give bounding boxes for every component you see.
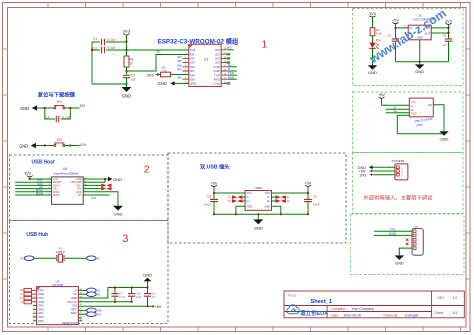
wire D- row bbox=[386, 108, 410, 110]
svg-text:Your Company: Your Company bbox=[352, 307, 375, 311]
port right D+ (red bowtie) bbox=[276, 199, 286, 203]
svg-text:GND: GND bbox=[122, 94, 131, 99]
svg-text:D-: D- bbox=[229, 196, 232, 199]
U2 right lower pin stubs bbox=[78, 318, 82, 321]
svg-text:GND: GND bbox=[411, 112, 417, 116]
ground (regulator) bbox=[415, 62, 425, 74]
wire +5V down and to U3 IN bbox=[396, 24, 409, 28]
svg-text:3V3: 3V3 bbox=[445, 20, 452, 24]
wire GND2 row down bbox=[83, 192, 118, 206]
wire +5V to VCC bbox=[382, 99, 410, 106]
svg-text:RESET#/CDP: RESET#/CDP bbox=[62, 321, 79, 325]
capacitor C7 bbox=[111, 288, 125, 302]
svg-text:3V3: 3V3 bbox=[369, 12, 376, 16]
U5 right pin names bbox=[71, 177, 83, 197]
svg-text:12MHz: 12MHz bbox=[56, 250, 66, 254]
resistor R2 bbox=[159, 66, 189, 77]
ground (right arrow GND) bbox=[108, 177, 122, 182]
svg-text:RXD: RXD bbox=[389, 232, 396, 236]
svg-text:C8: C8 bbox=[313, 195, 317, 199]
port left D+ (red bowtie) bbox=[232, 199, 242, 203]
power flag 3V3 (POWER1 pin3) bbox=[360, 173, 373, 177]
regulator U3 bbox=[408, 14, 434, 40]
svg-text:C1: C1 bbox=[93, 37, 97, 41]
svg-text:INT: INT bbox=[78, 193, 83, 197]
svg-text:1uf: 1uf bbox=[152, 295, 156, 299]
power flag +5V bbox=[151, 305, 162, 309]
wire + net label 3V3 (U1 pin IO0 row) bbox=[227, 49, 233, 51]
wire right GND pin down bbox=[272, 206, 281, 214]
svg-text:TITLE:: TITLE: bbox=[288, 294, 297, 298]
svg-text:C8: C8 bbox=[387, 34, 391, 38]
svg-text:C16: C16 bbox=[136, 292, 141, 296]
crystal Y1 12MHz bbox=[56, 247, 66, 263]
ground (U1 GND pin) bbox=[158, 81, 189, 86]
junction dots OUT bbox=[447, 27, 449, 34]
svg-text:DP2: DP2 bbox=[38, 304, 44, 308]
U2 left lower pin stubs bbox=[33, 306, 37, 321]
wire GND to pin1 bbox=[373, 166, 395, 168]
power flag +5V (USB1) bbox=[378, 93, 385, 98]
svg-text:Sheet_1: Sheet_1 bbox=[311, 299, 332, 305]
U1 left pin stubs bbox=[183, 58, 189, 79]
LED PL1 bbox=[369, 38, 381, 49]
ground (LED) bbox=[368, 65, 378, 75]
wire bowtie to D- pin bbox=[242, 196, 245, 198]
svg-text:D-: D- bbox=[267, 195, 270, 199]
svg-text:D-: D- bbox=[411, 104, 414, 108]
no-connect marks pins 3-4 bbox=[406, 238, 409, 245]
wire switch to EN label bbox=[65, 107, 80, 109]
svg-text:D+: D+ bbox=[411, 108, 415, 112]
svg-text:XI: XI bbox=[74, 288, 77, 292]
wire +5V row (bottom rail) bbox=[78, 305, 151, 307]
junction dot GND rail bbox=[419, 61, 421, 63]
svg-text:10K: 10K bbox=[162, 69, 169, 73]
port HD- (red bowtie) bbox=[101, 187, 111, 191]
svg-text:VCC: VCC bbox=[411, 100, 417, 104]
U2 right pin names bbox=[71, 288, 77, 315]
wire bottom GND rail (regulator) bbox=[396, 61, 449, 63]
svg-text:D-: D- bbox=[21, 293, 24, 296]
wire right D- pin to bowtie bbox=[272, 196, 276, 198]
svg-text:RXD: RXD bbox=[228, 75, 234, 79]
svg-text:1: 1 bbox=[262, 39, 268, 51]
capacitor C2 bbox=[92, 46, 127, 53]
svg-text:DPU: DPU bbox=[71, 307, 77, 311]
port flags rows IO1..IO3 (green) bbox=[227, 53, 231, 85]
svg-text:D+: D+ bbox=[228, 200, 232, 203]
net port UD- bbox=[87, 312, 102, 317]
svg-text:USB2: USB2 bbox=[254, 186, 262, 190]
net labels IO4-IO9 (left stubs) bbox=[177, 55, 182, 80]
svg-text:+5V: +5V bbox=[155, 305, 162, 309]
wire U3 OUT rows to 3V3 bbox=[431, 25, 448, 39]
chip U5 SuperMicroUSBhub bbox=[52, 167, 84, 204]
svg-text:D+: D+ bbox=[394, 109, 398, 113]
junction dot VBCOMP/GND bbox=[104, 178, 106, 180]
svg-text:5V: 5V bbox=[20, 289, 23, 292]
wire SS row bbox=[15, 188, 51, 190]
svg-text:VCC: VCC bbox=[265, 191, 271, 195]
svg-text:IO9: IO9 bbox=[57, 138, 62, 142]
svg-text:MOSI: MOSI bbox=[36, 191, 43, 195]
chip U2 CH334R bbox=[37, 280, 79, 325]
wire HD- bbox=[83, 188, 101, 190]
capacitor C6 bbox=[204, 195, 218, 207]
power flag 3V3 (LED branch) bbox=[369, 12, 376, 17]
net port X0 (left oval) bbox=[20, 256, 34, 261]
svg-text:EN: EN bbox=[157, 50, 161, 54]
junction dots caps bbox=[114, 286, 149, 307]
wire MOSI row bbox=[15, 194, 51, 196]
svg-text:GND: GND bbox=[440, 137, 449, 142]
svg-text:GND: GND bbox=[264, 204, 270, 208]
svg-text:DP4: DP4 bbox=[38, 288, 44, 292]
svg-text:GND: GND bbox=[254, 226, 263, 231]
wire 3V3 to R4 bbox=[372, 18, 374, 28]
op chip U1 ESP32-C3-WROOM-02 bbox=[189, 44, 221, 86]
wire +5V left vertical bbox=[213, 187, 215, 215]
svg-text:DP3: DP3 bbox=[38, 296, 44, 300]
svg-text:C6: C6 bbox=[207, 195, 211, 199]
ground (EN button) bbox=[20, 105, 37, 111]
svg-text:X1: X1 bbox=[97, 289, 101, 293]
svg-text:2023-06-26: 2023-06-26 bbox=[344, 313, 361, 317]
connector J4 (debug uart) bbox=[412, 225, 423, 256]
svg-text:IO9: IO9 bbox=[80, 143, 86, 147]
svg-text:3V3: 3V3 bbox=[360, 173, 367, 177]
svg-text:DM2: DM2 bbox=[38, 307, 44, 311]
wire MISO row bbox=[15, 191, 51, 193]
svg-text:D+: D+ bbox=[267, 199, 271, 203]
header net labels 5V/D-/D+/GND bbox=[20, 289, 24, 304]
svg-text:CH334R: CH334R bbox=[52, 283, 64, 287]
pushbutton IO9 bbox=[54, 138, 65, 147]
wire +5V to USB2 VCC bbox=[214, 192, 245, 194]
wire VBUS33 row (mid rail) bbox=[78, 301, 131, 303]
svg-text:D-: D- bbox=[287, 196, 290, 199]
svg-text:EN: EN bbox=[80, 104, 85, 108]
svg-text:1uf: 1uf bbox=[131, 78, 136, 82]
svg-text:GND: GND bbox=[113, 177, 122, 182]
svg-text:DM1: DM1 bbox=[38, 315, 44, 319]
power flag +5V (POWER1 pin2) bbox=[359, 170, 373, 174]
junction dot bbox=[307, 192, 309, 194]
U5 pin numbers bbox=[49, 178, 88, 196]
wire GND pin loop bbox=[397, 115, 444, 134]
svg-text:复位与下载按键: 复位与下载按键 bbox=[37, 91, 76, 99]
svg-text:3: 3 bbox=[122, 233, 128, 245]
svg-text:X0: X0 bbox=[97, 292, 101, 296]
wire GND row up to cap rail bbox=[78, 288, 147, 299]
svg-text:3V3: 3V3 bbox=[147, 72, 155, 77]
svg-text:X0: X0 bbox=[20, 256, 24, 260]
svg-text:Company:: Company: bbox=[331, 307, 346, 311]
svg-text:0.1uf: 0.1uf bbox=[119, 295, 125, 299]
svg-text:UD+: UD+ bbox=[97, 309, 103, 313]
wire R4 to LED bbox=[372, 36, 374, 43]
wire crystal to X1 bbox=[65, 257, 87, 259]
wire C4 loop bbox=[45, 108, 71, 119]
svg-text:D+: D+ bbox=[20, 297, 24, 300]
upstream port header (4 red boxes) bbox=[24, 288, 32, 303]
capacitor C16 bbox=[128, 288, 142, 302]
section box: USB Hub bbox=[10, 221, 169, 324]
section box: dual USB bbox=[168, 153, 346, 243]
wire + net label D+ (IO19) bbox=[227, 66, 237, 68]
junction dots IO9 row bbox=[44, 144, 46, 146]
svg-text:UD-: UD- bbox=[97, 312, 102, 316]
svg-text:嘉立创EDA: 嘉立创EDA bbox=[300, 309, 329, 317]
capacitor C3 bbox=[123, 74, 135, 88]
net port X1 (chip side) bbox=[87, 288, 101, 293]
resistor R6 bbox=[124, 50, 134, 74]
svg-text:U3: U3 bbox=[418, 14, 422, 18]
svg-text:U5: U5 bbox=[63, 167, 67, 171]
wires header to U2 pins bbox=[32, 290, 37, 301]
net port X0 (chip side) bbox=[87, 292, 101, 297]
wire GND to IO9 switch bbox=[36, 145, 54, 147]
power flag 3V3 (reg out) bbox=[445, 20, 452, 25]
svg-text:U1: U1 bbox=[204, 58, 208, 62]
svg-text:C7: C7 bbox=[119, 292, 123, 296]
net port UD+ bbox=[87, 308, 103, 313]
svg-text:D+: D+ bbox=[287, 200, 291, 203]
junction dot bbox=[213, 192, 215, 194]
svg-text:REV:: REV: bbox=[438, 296, 445, 300]
wire RXD row bbox=[374, 234, 412, 236]
wire 3V3 to pin3 bbox=[373, 174, 395, 176]
svg-text:GND: GND bbox=[158, 81, 167, 86]
svg-text:2: 2 bbox=[144, 164, 150, 176]
wire D+ row bbox=[386, 112, 410, 114]
ground (IO9 button) bbox=[19, 143, 36, 149]
wire VBCOMP tied up to GND bbox=[83, 179, 105, 182]
wire EN pin right down bbox=[433, 105, 444, 131]
port left D- (red bowtie) bbox=[232, 195, 242, 199]
svg-text:10uF: 10uF bbox=[136, 295, 142, 299]
power flag 3V3 (at R2) bbox=[147, 72, 159, 77]
svg-text:+5V: +5V bbox=[392, 19, 399, 23]
wire left vertical of C1/C2 loop bbox=[91, 42, 93, 84]
svg-text:DP1: DP1 bbox=[38, 311, 44, 315]
svg-text:PL1: PL1 bbox=[376, 38, 381, 42]
wire TXD row bbox=[374, 230, 412, 232]
svg-text:GND: GND bbox=[368, 70, 377, 75]
capacitor C4 bbox=[45, 115, 70, 122]
USB2 left pin names bbox=[247, 191, 253, 208]
wire HD+ bbox=[83, 184, 101, 186]
svg-text:GND: GND bbox=[114, 211, 123, 216]
svg-text:EN: EN bbox=[428, 103, 432, 107]
wire GND to switch bbox=[37, 107, 54, 109]
wire right D+ pin to bowtie bbox=[272, 200, 276, 202]
svg-text:D-: D- bbox=[247, 195, 250, 199]
svg-text:Zoologist: Zoologist bbox=[405, 313, 419, 317]
wire pin5 to GND bbox=[399, 248, 412, 255]
svg-text:+5V: +5V bbox=[305, 181, 312, 185]
svg-text:GND: GND bbox=[395, 260, 404, 265]
power flag +5V (left) bbox=[211, 181, 218, 186]
U1 right pin names bbox=[214, 48, 221, 86]
chip USB1 USB-212-BCW bbox=[409, 98, 433, 127]
junction dots C1/C2 rail bbox=[91, 40, 128, 85]
svg-text:GND: GND bbox=[143, 273, 152, 278]
svg-text:GND: GND bbox=[247, 204, 253, 208]
USB2 right pin names bbox=[264, 191, 270, 208]
svg-text:0.1uf: 0.1uf bbox=[62, 115, 69, 119]
svg-text:GND: GND bbox=[71, 296, 77, 300]
svg-text:3V3: 3V3 bbox=[226, 46, 232, 50]
capacitor C1 bbox=[92, 37, 127, 45]
net port X1 (right oval) bbox=[87, 256, 101, 261]
ground (below C3) bbox=[122, 87, 132, 99]
wire + net label TXD bbox=[227, 74, 237, 76]
wire bowtie to D+ pin bbox=[242, 200, 245, 202]
ground (up arrow above caps) bbox=[143, 273, 152, 288]
ground (USB1) bbox=[439, 131, 449, 141]
svg-text:VCC: VCC bbox=[247, 191, 253, 195]
power flag +5V (regulator) bbox=[392, 19, 399, 24]
ground (POWER1 pin1) bbox=[358, 165, 373, 170]
connector POWER1 bbox=[392, 159, 408, 180]
wire switch to IO9 label bbox=[65, 145, 80, 147]
svg-text:C4: C4 bbox=[45, 115, 49, 119]
wire U3 GND pin down bbox=[419, 40, 421, 62]
port right D- (red bowtie) bbox=[276, 195, 286, 199]
svg-text:0.1uf: 0.1uf bbox=[108, 46, 115, 50]
svg-text:3V3: 3V3 bbox=[24, 172, 31, 176]
junction dot bbox=[29, 178, 31, 180]
ground (bottom) bbox=[113, 206, 123, 217]
wire EN net from R6/C3 node to U1 EN pin bbox=[127, 55, 189, 72]
power flag 3V3 (USB host) bbox=[24, 172, 33, 179]
svg-text:USB Host: USB Host bbox=[32, 160, 55, 166]
svg-text:C5: C5 bbox=[152, 292, 156, 296]
ground (J4) bbox=[395, 255, 405, 265]
wire INT bbox=[83, 194, 109, 196]
svg-text:GND: GND bbox=[19, 143, 28, 148]
section box: regulator (green) bbox=[353, 9, 464, 86]
svg-text:DM3: DM3 bbox=[38, 300, 44, 304]
wire 3V3 rail to U1 pin 3V3 bbox=[127, 42, 189, 51]
svg-text:USB Hub: USB Hub bbox=[26, 232, 48, 238]
wire DMU row to oval bbox=[78, 313, 86, 315]
pushbutton EN bbox=[54, 100, 65, 109]
wire +5V right vertical bbox=[307, 187, 309, 215]
junction dots GND rail bbox=[213, 213, 309, 215]
svg-text:0.1K: 0.1K bbox=[376, 32, 382, 36]
svg-text:POWER1: POWER1 bbox=[392, 159, 405, 163]
svg-text:GND: GND bbox=[190, 82, 196, 86]
U1 pin numbers bbox=[185, 48, 227, 84]
svg-text:3V3: 3V3 bbox=[123, 29, 131, 34]
svg-text:DM4: DM4 bbox=[38, 292, 44, 296]
svg-text:+5V: +5V bbox=[211, 181, 218, 185]
ground (center) bbox=[253, 214, 263, 230]
svg-text:Sheet:: Sheet: bbox=[435, 311, 444, 315]
svg-text:Drawn By:: Drawn By: bbox=[384, 313, 399, 317]
section box: usb-212 (green) bbox=[353, 92, 464, 153]
svg-text:INT: INT bbox=[92, 196, 97, 200]
wire + net label RXD bbox=[227, 78, 237, 80]
capacitor C8 bbox=[387, 28, 399, 62]
svg-text:Date:: Date: bbox=[331, 313, 339, 317]
capacitor C8b bbox=[304, 195, 320, 207]
svg-text:MOSI: MOSI bbox=[53, 193, 60, 197]
svg-text:D+: D+ bbox=[247, 199, 251, 203]
svg-text:G: G bbox=[21, 301, 23, 304]
svg-text:0.1uf: 0.1uf bbox=[108, 38, 115, 42]
port HD+ (red bowtie) bbox=[101, 184, 111, 188]
svg-text:GND: GND bbox=[415, 69, 424, 74]
svg-text:C2: C2 bbox=[93, 47, 97, 51]
wire RESET row bbox=[15, 181, 51, 183]
U2 pin numbers bbox=[34, 289, 83, 321]
resistor R4 bbox=[370, 28, 382, 36]
wire X0 to crystal bbox=[34, 257, 56, 259]
EasyEDA logo bbox=[287, 305, 328, 317]
svg-text:10uF: 10uF bbox=[204, 203, 211, 207]
svg-text:IO10: IO10 bbox=[214, 82, 221, 86]
svg-text:IO9: IO9 bbox=[177, 76, 182, 80]
chip USB2 (dual socket) bbox=[245, 186, 271, 210]
wire XI row to oval bbox=[78, 289, 86, 291]
svg-text:1uf: 1uf bbox=[443, 43, 447, 47]
wire LED to GND bbox=[372, 49, 374, 65]
svg-text:DMU: DMU bbox=[71, 311, 77, 315]
svg-text:EN: EN bbox=[57, 100, 62, 104]
junction dots EN row bbox=[44, 107, 46, 109]
title block frame bbox=[284, 291, 464, 318]
junction dot +5V node bbox=[394, 27, 396, 29]
section box: power input (green) bbox=[353, 153, 464, 214]
svg-text:XO: XO bbox=[73, 292, 77, 296]
svg-text:GND: GND bbox=[20, 106, 29, 111]
svg-text:IO7: IO7 bbox=[177, 68, 182, 72]
svg-text:1.0: 1.0 bbox=[453, 296, 458, 300]
capacitor C5 bbox=[144, 288, 156, 307]
svg-text:DP0: DP0 bbox=[38, 319, 44, 323]
U2 left pin names bbox=[38, 288, 44, 322]
svg-text:C9: C9 bbox=[443, 34, 447, 38]
svg-text:V33: V33 bbox=[72, 304, 77, 308]
power flag +5V (right) bbox=[305, 181, 312, 186]
wire 3.3V pin row bbox=[30, 178, 52, 180]
capacitor C9 bbox=[443, 34, 453, 62]
svg-text:外部供电输入，主要用于调试: 外部供电输入，主要用于调试 bbox=[364, 194, 434, 202]
wire DPU row to oval bbox=[78, 309, 86, 311]
wire XO row to oval bbox=[78, 293, 86, 295]
svg-text:X1: X1 bbox=[97, 256, 101, 260]
svg-text:+5V: +5V bbox=[378, 93, 385, 97]
svg-text:双 USB 插头: 双 USB 插头 bbox=[200, 163, 230, 171]
power flag 3V3 (top of decoupling network) bbox=[123, 29, 131, 36]
wire +5V to right VCC bbox=[272, 192, 309, 194]
U1 right pin stubs bbox=[221, 50, 227, 84]
section box: USB Host bbox=[10, 155, 169, 221]
section box: uart header (green) bbox=[351, 214, 465, 275]
svg-text:10uF: 10uF bbox=[313, 203, 320, 207]
svg-text:SuperMicroUSBhub: SuperMicroUSBhub bbox=[53, 172, 79, 176]
svg-text:1/1: 1/1 bbox=[453, 311, 458, 315]
wire + net label D- (IO18) bbox=[227, 70, 237, 72]
wire left GND pin down bbox=[236, 206, 245, 214]
wire bottom GND rail bbox=[214, 213, 308, 215]
U5 left pin names bbox=[53, 177, 62, 197]
wire GND row right bbox=[83, 178, 108, 180]
